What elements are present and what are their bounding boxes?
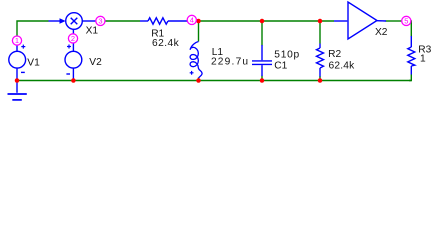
resistor R2 bbox=[317, 44, 324, 77]
multiplier X1 body bbox=[66, 13, 83, 30]
junction dot R2 top bbox=[318, 19, 323, 24]
wire node 3 to R1 bbox=[106, 20, 141, 22]
junction dot L1 top bbox=[196, 19, 201, 24]
source V1 plus mark bbox=[21, 45, 25, 49]
node 5 bbox=[402, 16, 411, 25]
junction dot V1 bottom bbox=[15, 78, 20, 83]
wire node 4 to X2 input bbox=[197, 20, 335, 22]
svg-text:X2: X2 bbox=[375, 27, 388, 38]
node 2 bbox=[68, 34, 77, 43]
wire L1 column top bbox=[198, 21, 200, 42]
resistor R1 bbox=[140, 18, 187, 24]
resistor R3 bbox=[408, 36, 415, 75]
source V2 body bbox=[65, 51, 82, 68]
source V2 minus mark bbox=[66, 73, 70, 75]
svg-text:1: 1 bbox=[15, 36, 19, 45]
inductor L1 bbox=[190, 42, 202, 79]
node 3 bbox=[96, 16, 105, 25]
inductor L1 plus mark bbox=[190, 71, 194, 75]
source V1 top stub bbox=[16, 45, 18, 51]
source V1 minus mark bbox=[21, 71, 25, 73]
junction dot L1 bottom bbox=[196, 78, 201, 83]
node 4 bbox=[187, 15, 196, 24]
wire R3 bottom corner to rail bbox=[409, 75, 411, 81]
svg-text:V2: V2 bbox=[89, 57, 102, 68]
op-amp X2 input lead bbox=[334, 20, 347, 22]
wire L1 bottom to rail bbox=[198, 78, 200, 81]
wire R2 column top bbox=[319, 21, 321, 44]
wire X2 output to node 5 bbox=[386, 20, 402, 22]
capacitor C1 bbox=[252, 45, 272, 76]
multiplier X1 bottom stub to node 2 bbox=[72, 29, 74, 34]
svg-text:229.7u: 229.7u bbox=[211, 56, 249, 67]
svg-text:62.4k: 62.4k bbox=[329, 60, 356, 71]
source V2 plus mark bbox=[67, 45, 71, 49]
junction dot V2 bottom bbox=[71, 78, 76, 83]
svg-text:V1: V1 bbox=[27, 58, 40, 69]
junction dot R2 bottom bbox=[318, 78, 323, 83]
svg-text:R2: R2 bbox=[328, 49, 341, 60]
source V2 top stub from node 2 bbox=[72, 43, 74, 52]
svg-text:5: 5 bbox=[404, 16, 408, 25]
wire R2 bottom to rail bbox=[319, 76, 321, 81]
ground bbox=[8, 81, 27, 100]
junction dot C1 top bbox=[260, 19, 265, 24]
svg-text:3: 3 bbox=[98, 16, 102, 25]
svg-text:62.4k: 62.4k bbox=[152, 38, 180, 49]
source V1 bottom stub bbox=[16, 68, 18, 80]
wire from node 1 up and right to X1 input bbox=[17, 21, 49, 45]
svg-text:510p: 510p bbox=[274, 50, 300, 61]
svg-text:1: 1 bbox=[420, 54, 426, 65]
wire node 5 corner down to R3 bbox=[406, 21, 411, 37]
wire bottom ground rail bbox=[17, 80, 411, 82]
svg-text:2: 2 bbox=[71, 34, 75, 43]
multiplier X1 input arrow bbox=[49, 18, 66, 24]
source V1 body bbox=[9, 51, 26, 68]
node 1 bbox=[12, 36, 21, 45]
source V2 bottom stub bbox=[72, 68, 74, 80]
wire C1 bottom to rail bbox=[261, 76, 263, 81]
wire C1 column top bbox=[261, 21, 263, 46]
svg-text:4: 4 bbox=[190, 15, 194, 24]
junction dot C1 bottom bbox=[260, 78, 265, 83]
op-amp X2 body bbox=[348, 2, 377, 39]
svg-text:X1: X1 bbox=[86, 26, 99, 37]
multiplier X1 output stub bbox=[82, 20, 96, 22]
svg-text:C1: C1 bbox=[274, 61, 287, 72]
op-amp X2 output stub bbox=[377, 20, 386, 22]
